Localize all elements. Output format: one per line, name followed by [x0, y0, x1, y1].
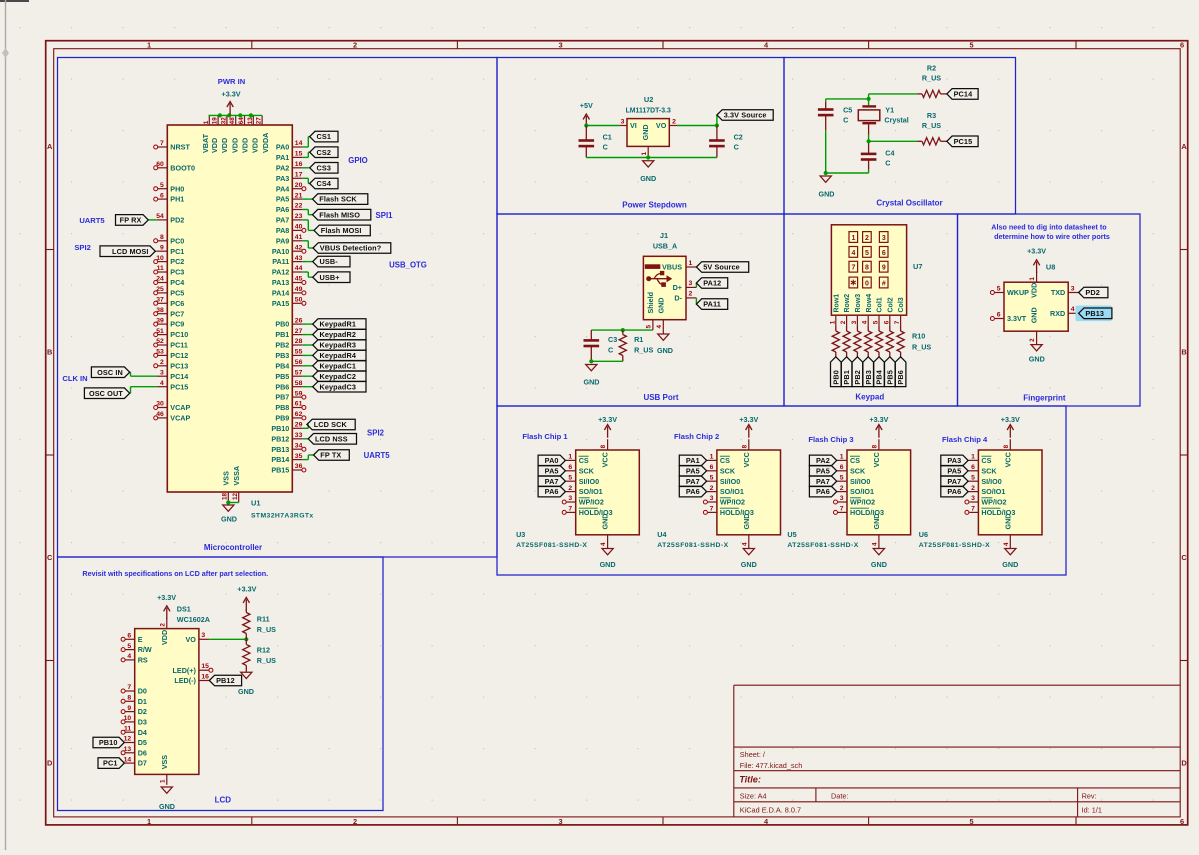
U1 pin 18 VSS [222, 471, 231, 503]
svg-text:CS: CS [850, 456, 860, 465]
regulator U2 body [627, 119, 669, 147]
wire crystal top node [868, 94, 870, 105]
svg-text:Crystal Oscillator: Crystal Oscillator [876, 198, 942, 207]
keypad U7 body [831, 225, 906, 315]
net label CS2 [310, 147, 338, 158]
U4 pin 4 GND [741, 535, 748, 549]
svg-text:Size: A4: Size: A4 [740, 791, 767, 800]
svg-text:D7: D7 [138, 759, 147, 768]
svg-text:3: 3 [558, 817, 562, 826]
LCD DS1 body [135, 629, 199, 775]
svg-text:Col3: Col3 [898, 297, 905, 312]
svg-text:VSS: VSS [160, 755, 169, 770]
svg-text:PB10: PB10 [271, 424, 289, 433]
svg-text:4: 4 [862, 320, 869, 324]
svg-text:AT25SF081-SSHD-X: AT25SF081-SSHD-X [787, 542, 858, 549]
R1 value R_US [634, 345, 653, 354]
svg-text:SCK: SCK [579, 466, 595, 475]
svg-text:PB6: PB6 [275, 382, 289, 391]
wire OSC IN to PC14 [130, 372, 157, 376]
svg-text:5: 5 [873, 320, 880, 324]
svg-text:PA6: PA6 [686, 487, 700, 496]
net label PB13 [1079, 308, 1112, 319]
net label PB10 [93, 737, 124, 748]
ground U8 [1029, 345, 1045, 364]
svg-text:VBAT: VBAT [201, 133, 210, 153]
svg-text:57: 57 [295, 369, 303, 376]
svg-text:+3.3V: +3.3V [1027, 246, 1046, 255]
section title USB Port [643, 393, 678, 402]
resistor R2 [917, 90, 946, 97]
svg-text:6: 6 [883, 320, 890, 324]
U4 value AT25SF081-SSHD-X [657, 542, 728, 549]
svg-text:VCC: VCC [601, 452, 610, 467]
svg-text:Flash Chip 3: Flash Chip 3 [808, 435, 853, 444]
svg-text:determine how to wire other po: determine how to wire other ports [994, 232, 1110, 241]
svg-text:56: 56 [295, 359, 303, 366]
svg-text:5: 5 [969, 817, 973, 826]
wire C3 R1 bottom [591, 360, 623, 362]
svg-text:PB15: PB15 [271, 466, 289, 475]
svg-text:17: 17 [295, 172, 303, 179]
svg-text:VCC: VCC [742, 452, 751, 467]
svg-text:2: 2 [971, 485, 975, 492]
C5 reference [843, 106, 852, 115]
svg-text:5: 5 [160, 182, 164, 189]
section title Power Stepdown [622, 201, 687, 210]
J1 USB trident icon [646, 271, 672, 287]
DS1 pin 1 VSS [159, 755, 168, 785]
svg-text:21: 21 [295, 192, 303, 199]
svg-text:CS: CS [579, 456, 589, 465]
svg-text:SPI1: SPI1 [376, 211, 394, 220]
svg-text:PB9: PB9 [275, 414, 289, 423]
svg-text:Sheet: /: Sheet: / [740, 750, 766, 759]
svg-text:USB_A: USB_A [653, 242, 677, 251]
svg-text:PA4: PA4 [276, 184, 289, 193]
svg-text:GND: GND [657, 346, 673, 355]
svg-text:6: 6 [710, 464, 714, 471]
net label PA6 flash3 [809, 486, 836, 497]
svg-text:PB5: PB5 [885, 370, 894, 385]
U1 pin 62 PB9 [275, 411, 306, 422]
svg-text:PB1: PB1 [275, 330, 289, 339]
svg-text:D2: D2 [138, 707, 147, 716]
svg-text:4: 4 [127, 653, 131, 660]
svg-text:4: 4 [1003, 542, 1010, 546]
net label PA5 flash2 [679, 466, 706, 477]
net label CS4 [310, 178, 338, 189]
title block [734, 685, 1180, 817]
svg-text:PB13: PB13 [271, 445, 289, 454]
svg-text:STM32H7A3RGTx: STM32H7A3RGTx [251, 513, 314, 520]
svg-text:PD2: PD2 [170, 216, 184, 225]
U6 pin 3 WP/IO2 [965, 495, 1007, 506]
svg-text:Row1: Row1 [833, 294, 840, 313]
svg-text:2: 2 [1029, 338, 1036, 342]
svg-text:LCD SCK: LCD SCK [314, 420, 348, 429]
svg-text:3: 3 [201, 632, 205, 639]
svg-text:8: 8 [1003, 444, 1010, 448]
svg-text:CS: CS [720, 456, 730, 465]
note fingerprint line1 [991, 223, 1107, 232]
svg-text:PC11: PC11 [170, 341, 188, 350]
net label PA6 flash1 [538, 486, 565, 497]
svg-text:C1: C1 [603, 133, 612, 142]
svg-text:R10: R10 [912, 332, 925, 341]
svg-text:VI: VI [630, 121, 637, 130]
svg-text:PB0: PB0 [831, 370, 840, 385]
svg-text:R/W: R/W [138, 645, 152, 654]
svg-text:29: 29 [295, 422, 303, 429]
svg-text:Date:: Date: [831, 791, 848, 800]
svg-text:9: 9 [160, 244, 164, 251]
svg-text:22: 22 [295, 203, 303, 210]
net label KeypadC1 [313, 361, 366, 372]
U1 pin 39 PC9 [154, 317, 185, 328]
svg-text:PB13: PB13 [1085, 309, 1104, 318]
svg-text:PD2: PD2 [1085, 288, 1100, 297]
svg-text:SCK: SCK [850, 466, 866, 475]
svg-text:PC1: PC1 [170, 247, 184, 256]
DS1 pin 9 D2 [121, 705, 147, 716]
svg-text:VDD: VDD [230, 138, 239, 153]
svg-text:PA11: PA11 [703, 300, 721, 309]
svg-text:VDD: VDD [160, 630, 169, 645]
svg-text:SO/IO1: SO/IO1 [981, 487, 1005, 496]
svg-text:6: 6 [882, 250, 886, 257]
J1 value USB_A [653, 242, 677, 251]
power +3.3V fingerprint [1027, 246, 1046, 273]
svg-text:37: 37 [156, 297, 164, 304]
svg-text:27: 27 [256, 117, 263, 125]
svg-text:6: 6 [840, 464, 844, 471]
net label PA1 flash2 [679, 455, 706, 466]
Microcontroller section box [58, 58, 498, 558]
resistor R10 element 1 [832, 326, 839, 357]
svg-text:2: 2 [672, 118, 676, 125]
wire VO to R11 [209, 638, 246, 640]
svg-text:4: 4 [872, 542, 879, 546]
svg-text:FP TX: FP TX [320, 451, 341, 460]
U1 top power pins VBAT VDD VDDA [201, 115, 270, 153]
svg-text:8: 8 [741, 444, 748, 448]
U3 pin 7 HOLD/IO3 [562, 506, 612, 517]
svg-text:B: B [47, 348, 52, 357]
wire to R3 [869, 140, 918, 142]
svg-text:D1: D1 [138, 697, 147, 706]
U1 pin 54 PD2 [156, 213, 184, 224]
wire to R2 [869, 93, 918, 95]
junction [584, 123, 588, 127]
DS1 pin 8 D1 [121, 695, 147, 706]
svg-text:PB5: PB5 [275, 372, 289, 381]
U8 pin 6 3.3VT [990, 311, 1026, 323]
U1 pin 24 PC4 [154, 276, 185, 287]
power +3.3V flash 2 [739, 415, 758, 438]
ground R12 [238, 672, 254, 696]
svg-text:PA6: PA6 [816, 487, 830, 496]
svg-text:1: 1 [851, 235, 855, 242]
memory U5 body [847, 450, 911, 535]
svg-text:2: 2 [840, 485, 844, 492]
U3 pin 1 CS [565, 454, 588, 465]
U1 pin 30 VCAP [154, 401, 191, 412]
svg-text:5: 5 [646, 325, 653, 329]
net label KeypadR2 [313, 329, 366, 340]
svg-text:Rev:: Rev: [1082, 791, 1097, 800]
svg-text:GND: GND [819, 190, 835, 199]
svg-text:SPI2: SPI2 [74, 243, 90, 252]
svg-text:1: 1 [159, 779, 166, 783]
svg-text:51: 51 [156, 328, 164, 335]
svg-text:WP/IO2: WP/IO2 [579, 498, 604, 507]
svg-text:25: 25 [156, 286, 164, 293]
U2 pin 2 VO [656, 118, 677, 130]
net label OSC IN [91, 367, 129, 378]
svg-text:1: 1 [1029, 277, 1036, 281]
DS1 value WC1602A [177, 615, 210, 624]
svg-text:U8: U8 [1046, 262, 1055, 271]
svg-text:PA13: PA13 [272, 278, 289, 287]
svg-text:6: 6 [160, 192, 164, 199]
svg-text:+3.3V: +3.3V [157, 593, 176, 602]
net label PA7 flash1 [538, 476, 565, 487]
svg-text:64: 64 [238, 117, 245, 125]
svg-text:PB8: PB8 [275, 403, 289, 412]
svg-text:PA1: PA1 [276, 153, 289, 162]
svg-text:1: 1 [641, 152, 648, 156]
svg-text:SI/IO0: SI/IO0 [850, 477, 870, 486]
U5 value AT25SF081-SSHD-X [787, 542, 858, 549]
svg-text:Col2: Col2 [887, 297, 894, 312]
label SPI2 right [367, 429, 385, 438]
svg-text:SO/IO1: SO/IO1 [720, 487, 744, 496]
label SPI1 [376, 211, 394, 220]
junction [218, 113, 222, 117]
wire +5V to VI [586, 125, 619, 127]
svg-text:3: 3 [558, 41, 562, 50]
svg-text:4: 4 [160, 380, 164, 387]
wire U1 to CS3 [303, 167, 310, 169]
svg-text:SI/IO0: SI/IO0 [981, 477, 1001, 486]
net label VBUS Detection? [313, 243, 391, 254]
junction [238, 113, 242, 117]
svg-text:U7: U7 [913, 262, 922, 271]
svg-text:GND: GND [640, 174, 656, 183]
ground flash 4 [1002, 549, 1018, 570]
svg-text:D-: D- [674, 294, 682, 303]
svg-text:24: 24 [156, 276, 164, 283]
svg-text:5: 5 [127, 643, 131, 650]
net label PB12 [209, 675, 241, 686]
svg-text:CS: CS [981, 456, 991, 465]
wire U1 to KeypadC1 [303, 365, 313, 367]
svg-text:R2: R2 [927, 63, 936, 72]
power +3.3V LCD [157, 593, 176, 619]
svg-text:+5V: +5V [580, 101, 593, 110]
U5 GND pin name [872, 514, 881, 530]
svg-text:WC1602A: WC1602A [177, 615, 210, 624]
ground J1 [657, 334, 673, 355]
section title Fingerprint [1023, 394, 1066, 403]
U1 pin 15 PA1 [276, 151, 303, 162]
R10 value R_US [912, 343, 931, 352]
U1 pin 20 PA4 [276, 182, 306, 193]
svg-text:PC6: PC6 [170, 299, 184, 308]
svg-text:PA7: PA7 [947, 477, 961, 486]
U1 pin 22 PA6 [276, 203, 303, 214]
U8 pin 5 WKUP [990, 285, 1029, 297]
U1 pin 8 PC0 [154, 234, 185, 245]
svg-text:DS1: DS1 [177, 605, 191, 614]
U1 pin 57 PB5 [275, 369, 302, 380]
net label FP TX [314, 450, 350, 461]
svg-text:58: 58 [295, 380, 303, 387]
svg-text:PA6: PA6 [276, 205, 289, 214]
svg-text:19: 19 [212, 117, 219, 125]
svg-text:#: # [882, 281, 886, 288]
svg-text:GND: GND [1002, 560, 1018, 569]
svg-text:D4: D4 [138, 728, 147, 737]
svg-text:PA6: PA6 [545, 487, 559, 496]
resistor R3 [917, 138, 946, 145]
svg-text:C: C [734, 143, 739, 152]
svg-text:TXD: TXD [1051, 288, 1065, 297]
svg-text:PC3: PC3 [170, 268, 184, 277]
svg-text:14: 14 [295, 140, 303, 147]
svg-text:R12: R12 [257, 646, 270, 655]
svg-text:WP/IO2: WP/IO2 [850, 498, 875, 507]
net label PC15 [947, 136, 978, 147]
U1 pin 16 PA2 [276, 161, 303, 172]
U1 reference [251, 499, 260, 508]
power +3.3V flash 4 [1001, 415, 1020, 438]
svg-text:B: B [1181, 348, 1186, 357]
svg-text:OSC IN: OSC IN [97, 368, 123, 377]
svg-text:Y1: Y1 [885, 105, 894, 114]
wire U1 to Flash SCK [303, 198, 313, 200]
svg-text:+3.3V: +3.3V [869, 415, 888, 424]
svg-text:C: C [1181, 553, 1187, 562]
svg-text:SI/IO0: SI/IO0 [720, 477, 740, 486]
svg-text:GND: GND [601, 514, 610, 530]
label CLK IN [62, 374, 87, 383]
U6 pin 1 CS [968, 454, 991, 465]
svg-text:PB3: PB3 [275, 351, 289, 360]
svg-text:VCAP: VCAP [170, 414, 190, 423]
svg-text:53: 53 [156, 349, 164, 356]
svg-text:59: 59 [295, 390, 303, 397]
svg-text:KeypadR2: KeypadR2 [320, 330, 357, 339]
svg-text:4: 4 [741, 542, 748, 546]
svg-text:PA5: PA5 [816, 466, 830, 475]
junction [244, 637, 248, 641]
wire U1 to FP TX [303, 455, 314, 460]
svg-text:Power Stepdown: Power Stepdown [622, 201, 687, 210]
U4 pin 8 VCC [741, 439, 750, 467]
svg-text:5: 5 [710, 474, 714, 481]
DS1 pin 13 D6 [121, 746, 147, 757]
U3 GND pin name [601, 514, 610, 530]
wire U1 to LCD NSS [303, 438, 309, 440]
U7 key buttons [849, 232, 888, 288]
svg-text:A: A [47, 142, 53, 151]
svg-text:4: 4 [851, 250, 855, 257]
net label 5V Source [696, 262, 748, 273]
net label PA11 [696, 299, 727, 310]
svg-text:46: 46 [156, 411, 164, 418]
wire VO to C2 [677, 125, 717, 127]
svg-text:55: 55 [295, 349, 303, 356]
wire U1 to KeypadR2 [303, 334, 313, 336]
svg-text:43: 43 [295, 255, 303, 262]
svg-text:54: 54 [156, 213, 164, 220]
net label PC14 [947, 89, 978, 100]
U6 pin 8 VCC [1003, 439, 1012, 467]
resistor R10 element 5 [875, 326, 882, 357]
svg-text:Row2: Row2 [844, 294, 851, 313]
svg-text:6: 6 [568, 464, 572, 471]
svg-text:52: 52 [156, 338, 164, 345]
svg-text:USB Port: USB Port [643, 393, 678, 402]
resistor R10 element 3 [854, 326, 861, 357]
U3 pin 8 VCC [600, 439, 609, 467]
svg-text:6: 6 [997, 311, 1001, 318]
ground U2 [640, 161, 656, 183]
svg-text:11: 11 [157, 265, 164, 272]
svg-text:LED(+): LED(+) [173, 666, 197, 675]
svg-text:SI/IO0: SI/IO0 [579, 477, 599, 486]
wire U1 to KeypadC3 [303, 386, 313, 388]
wire U1 to LCD SCK [303, 425, 309, 429]
svg-text:VDD: VDD [251, 138, 260, 153]
note fingerprint line2 [994, 232, 1110, 241]
J1 pin 4 GND [656, 298, 665, 334]
net label PB2 [852, 357, 863, 387]
svg-text:3: 3 [1071, 285, 1075, 292]
junction [646, 155, 650, 159]
svg-text:36: 36 [295, 463, 303, 470]
svg-text:1: 1 [829, 320, 836, 324]
section title Microcontroller [204, 543, 262, 552]
svg-text:8: 8 [872, 444, 879, 448]
svg-text:PA5: PA5 [276, 195, 289, 204]
U1 pin 34 PB13 [271, 442, 306, 453]
DS1 pin 5 R/W [121, 643, 152, 654]
wire top power rail [209, 114, 263, 116]
power +5V [580, 101, 593, 127]
svg-text:1: 1 [971, 454, 975, 461]
DS1 pin 4 RS [121, 653, 148, 664]
svg-text:3: 3 [160, 369, 164, 376]
R12 reference [257, 646, 270, 655]
svg-text:WP/IO2: WP/IO2 [720, 498, 745, 507]
U4 pin 7 HOLD/IO3 [703, 506, 753, 517]
U1 pin 7 NRST [154, 140, 191, 151]
svg-text:PA2: PA2 [816, 456, 830, 465]
svg-text:38: 38 [156, 307, 164, 314]
Y1 value Crystal [884, 115, 908, 124]
svg-text:15: 15 [295, 151, 303, 158]
svg-text:KiCad E.D.A. 8.0.7: KiCad E.D.A. 8.0.7 [740, 805, 801, 814]
U2 pin 1 GND [641, 124, 650, 157]
svg-text:GND: GND [872, 514, 881, 530]
svg-text:12: 12 [232, 492, 239, 500]
flash chip title Flash Chip 1 [522, 432, 568, 441]
U1 pin 28 PB2 [275, 338, 302, 349]
svg-text:PC14: PC14 [170, 372, 188, 381]
